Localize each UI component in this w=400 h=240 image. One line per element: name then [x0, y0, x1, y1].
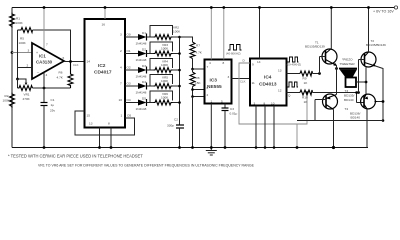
svg-text:CLK: CLK	[73, 63, 79, 67]
wire T4 right to emitter column	[377, 101, 383, 103]
wire IC3 pin8 supply	[223, 8, 225, 60]
svg-text:1μ: 1μ	[51, 103, 55, 107]
svg-text:T4: T4	[345, 107, 349, 111]
preset VR4 100K	[154, 68, 173, 73]
svg-text:3: 3	[120, 33, 122, 37]
preset VR5 100K	[154, 84, 173, 89]
wire IC3 pin3 to IC4 clock	[232, 78, 251, 80]
svg-text:O3: O3	[127, 82, 131, 86]
wire pot bus	[179, 37, 181, 125]
terminal +V open circle	[394, 6, 397, 9]
svg-text:C2: C2	[174, 118, 178, 122]
diode D4 1N4148	[138, 83, 147, 89]
svg-text:4: 4	[120, 66, 122, 70]
svg-text:330p: 330p	[167, 124, 174, 128]
svg-text:7: 7	[46, 43, 48, 47]
svg-text:BD140: BD140	[351, 116, 361, 120]
wire IC2 pin16	[104, 8, 106, 20]
preset VR2 100K	[154, 35, 173, 40]
wire IC2 pin8 to ground	[110, 128, 112, 148]
node Qbar feedback tap	[306, 91, 309, 94]
svg-text:R7: R7	[196, 44, 200, 48]
svg-text:CLK: CLK	[240, 80, 246, 84]
resistor R6 4.7K	[68, 62, 73, 89]
wire T2 collector	[368, 8, 370, 53]
wire R5 left leg to pin2 node	[17, 30, 19, 68]
svg-text:O1: O1	[127, 49, 131, 53]
node piezo right	[365, 81, 368, 84]
wire IC4 Qbar output	[287, 92, 301, 94]
row O0 wire	[125, 26, 181, 46]
wire op-amp pin3	[12, 52, 32, 54]
svg-text:15K: 15K	[195, 81, 201, 85]
svg-text:1N4148: 1N4148	[136, 107, 147, 111]
svg-text:2: 2	[207, 93, 209, 97]
IC4 CD4013	[250, 59, 287, 106]
capacitor C2 330p	[176, 124, 184, 126]
svg-text:4: 4	[46, 73, 48, 77]
svg-text:10: 10	[119, 98, 123, 102]
wire T1 collector	[330, 8, 332, 49]
svg-text:R1: R1	[16, 17, 20, 21]
svg-text:7: 7	[207, 65, 209, 69]
svg-text:(40-80KHZ): (40-80KHZ)	[226, 52, 241, 56]
svg-text:5: 5	[221, 100, 223, 104]
transistor T4 BD136/BD140	[345, 94, 378, 120]
wire T4 base drop	[356, 93, 358, 103]
svg-text:(20-40KHZ): (20-40KHZ)	[287, 63, 302, 67]
svg-text:100K: 100K	[161, 47, 169, 51]
svg-text:BD135/BD139: BD135/BD139	[366, 43, 386, 47]
wire chain bottom to ground	[192, 97, 194, 148]
svg-text:TWEETER: TWEETER	[340, 62, 356, 66]
svg-text:14: 14	[87, 60, 91, 64]
svg-text:D3: D3	[142, 64, 146, 68]
svg-text:C1: C1	[51, 98, 55, 102]
svg-text:VR1 TO VR6 ARE SET FOR DIFFERE: VR1 TO VR6 ARE SET FOR DIFFERENT VALUES …	[38, 164, 255, 168]
svg-text:11: 11	[252, 81, 255, 85]
IC3 NE555	[205, 60, 232, 104]
diode D2 1N4148	[138, 51, 147, 57]
piezo tweeter	[337, 58, 367, 88]
svg-text:CD4013: CD4013	[259, 82, 277, 88]
svg-text:O0: O0	[127, 33, 131, 37]
svg-text:IC2: IC2	[98, 63, 106, 69]
svg-text:6: 6	[63, 56, 65, 60]
transistor T3 BD136/BD140	[323, 89, 355, 110]
wire T3 collector to ground	[333, 110, 335, 148]
svg-text:1: 1	[121, 114, 123, 118]
svg-text:100K: 100K	[173, 30, 181, 34]
svg-text:4.7K: 4.7K	[57, 76, 64, 80]
svg-text:9: 9	[252, 63, 254, 67]
squarewave icon 555 output	[228, 45, 242, 51]
svg-text:100K: 100K	[16, 21, 24, 25]
capacitor C1 1u 25v	[43, 88, 45, 103]
svg-text:VR1: VR1	[24, 93, 30, 97]
wire op-amp pin2	[18, 68, 33, 80]
svg-text:BD135/BD139: BD135/BD139	[305, 45, 325, 49]
svg-text:2: 2	[27, 64, 29, 68]
wire IC4 D input feedback	[239, 63, 307, 124]
wire IC4 pin14 supply	[259, 8, 261, 59]
svg-text:NE555: NE555	[207, 84, 222, 90]
svg-text:100K: 100K	[19, 41, 27, 45]
diode D1 1N4148	[138, 34, 147, 40]
wire T3 base stub	[315, 99, 326, 101]
svg-text:IC1: IC1	[39, 54, 46, 59]
wire op-amp pin7 supply	[43, 8, 45, 51]
wire bottom bus	[314, 100, 316, 121]
svg-text:BD136/: BD136/	[350, 111, 360, 115]
row O3 wire	[125, 75, 180, 95]
node piezo left	[335, 67, 338, 70]
svg-text:R8: R8	[196, 76, 200, 80]
wire op-amp pin4	[43, 73, 45, 89]
svg-text:BD140: BD140	[344, 98, 354, 102]
resistor R10 1K	[300, 90, 313, 95]
svg-text:D4: D4	[142, 80, 146, 84]
wire ground rail	[12, 147, 368, 149]
wire T4 collector to ground rail end	[366, 109, 368, 148]
svg-text:O2: O2	[127, 66, 131, 70]
svg-text:1N4148: 1N4148	[136, 41, 147, 45]
svg-text:* TESTED WITH CERMIC EAR PIECE: * TESTED WITH CERMIC EAR PIECE USED IN T…	[8, 154, 143, 159]
svg-text:D1: D1	[142, 31, 146, 35]
svg-text:100K: 100K	[161, 79, 169, 83]
svg-text:1N4148: 1N4148	[136, 90, 147, 94]
wire IC4 ground pins	[255, 106, 257, 148]
preset VR1 wiper arrow	[18, 79, 27, 83]
squarewave icon Q output	[288, 57, 299, 62]
capacitor C3 0.01u	[224, 104, 226, 109]
svg-text:R6: R6	[59, 71, 63, 75]
transistor T2 BD135/BD139	[361, 39, 386, 67]
squarewave icon Qbar output	[287, 82, 298, 87]
wire IC2 reset loop pin1 to pin15	[75, 111, 135, 135]
wire T1 base column	[319, 57, 321, 74]
ground chassis symbol	[206, 148, 217, 156]
svg-text:1: 1	[211, 100, 213, 104]
svg-text:16: 16	[102, 23, 106, 27]
svg-text:100K: 100K	[3, 99, 11, 103]
row O1 wire	[125, 42, 180, 62]
svg-text:8: 8	[264, 102, 266, 106]
svg-text:+ 6V TO 16V: + 6V TO 16V	[373, 10, 394, 14]
svg-text:R9: R9	[303, 77, 307, 81]
wire chain to IC3 pin7	[192, 59, 194, 70]
row O2 wire	[125, 59, 180, 79]
svg-text:10: 10	[271, 102, 275, 106]
node output feedback junction	[69, 60, 72, 63]
diode D3 1N4148	[138, 67, 147, 73]
svg-text:0.01μ: 0.01μ	[230, 112, 238, 116]
resistor R7 4.7K	[190, 42, 195, 59]
svg-text:CA3130: CA3130	[36, 60, 53, 65]
wire IC3 pin4 supply	[210, 8, 212, 60]
svg-text:CD4017: CD4017	[94, 70, 112, 76]
svg-text:_: _	[36, 69, 39, 73]
wire T2 emitter column	[376, 66, 384, 121]
wire chain to IC3 pin6	[192, 87, 194, 97]
resistor R9 1K	[300, 71, 313, 76]
svg-text:13: 13	[89, 122, 93, 126]
wire left rail	[11, 8, 13, 148]
svg-text:8: 8	[223, 61, 225, 65]
wire R5 to op-amp output feedback	[33, 30, 71, 62]
svg-text:1N4148: 1N4148	[136, 58, 147, 62]
preset VR1 470K	[17, 79, 19, 88]
svg-text:R2: R2	[5, 94, 9, 98]
svg-text:25v: 25v	[50, 109, 55, 113]
svg-text:14: 14	[257, 60, 261, 64]
svg-text:2: 2	[120, 49, 122, 53]
row O4 wire	[125, 91, 180, 111]
preset VR6 100K	[154, 100, 173, 105]
wire T2 base line down to T4	[365, 67, 367, 95]
svg-text:4: 4	[209, 61, 211, 65]
svg-text:D2: D2	[142, 48, 146, 52]
svg-text:R10: R10	[302, 96, 308, 100]
svg-text:13: 13	[278, 69, 282, 73]
node C1 top	[43, 87, 46, 90]
wire op-amp output to IC2 pin14	[64, 61, 85, 63]
svg-text:6: 6	[207, 86, 209, 90]
resistor R8 15K	[190, 72, 195, 87]
svg-text:15: 15	[87, 114, 91, 118]
diode D5 1N4148	[138, 100, 147, 106]
svg-text:100K: 100K	[161, 96, 169, 100]
wire VR1 to C1/R6 node	[33, 87, 71, 89]
svg-text:12: 12	[278, 89, 282, 93]
wire IC2 pin13 to ground	[99, 128, 101, 148]
svg-text:O4: O4	[127, 98, 131, 102]
IC2 CD4017	[85, 19, 126, 128]
resistor R2 100K	[10, 93, 15, 109]
svg-text:3: 3	[254, 102, 256, 106]
wire feedback net drop to ground rail	[296, 124, 298, 148]
svg-text:3: 3	[228, 75, 230, 79]
svg-text:100K: 100K	[161, 63, 169, 67]
svg-text:O5: O5	[127, 114, 131, 118]
svg-text:D5: D5	[142, 97, 146, 101]
svg-text:470K: 470K	[23, 97, 31, 101]
wire emitter column T1 T3	[336, 66, 338, 95]
wire IC4 Q output	[287, 73, 301, 75]
svg-text:BD135/: BD135/	[344, 93, 354, 97]
svg-text:8: 8	[108, 122, 110, 126]
preset VR3 100K	[154, 51, 173, 56]
svg-text:4.7K: 4.7K	[196, 51, 203, 55]
wire T2 base drop	[358, 60, 360, 93]
op-amp IC1 CA3130	[32, 43, 64, 79]
wire IC3 pin1 ground	[210, 104, 212, 148]
svg-text:R5: R5	[20, 37, 24, 41]
svg-text:1N4148: 1N4148	[136, 74, 147, 78]
resistor R1 100K	[10, 13, 15, 29]
wire top +V rail	[12, 7, 394, 9]
svg-text:7: 7	[120, 82, 122, 86]
svg-text:+: +	[36, 51, 38, 55]
svg-text:IC4: IC4	[264, 75, 272, 81]
wire bus to timing chain	[180, 37, 193, 42]
transistor T1 BD135/BD139	[305, 41, 337, 66]
node pin3 junction on left rail	[11, 51, 14, 54]
svg-text:IC3: IC3	[210, 78, 218, 84]
wire chain to IC3 pin2	[193, 96, 205, 98]
svg-text:3: 3	[28, 49, 30, 53]
node pin2	[16, 78, 19, 81]
svg-text:C3: C3	[230, 107, 234, 111]
resistor R5 100K	[18, 28, 33, 33]
